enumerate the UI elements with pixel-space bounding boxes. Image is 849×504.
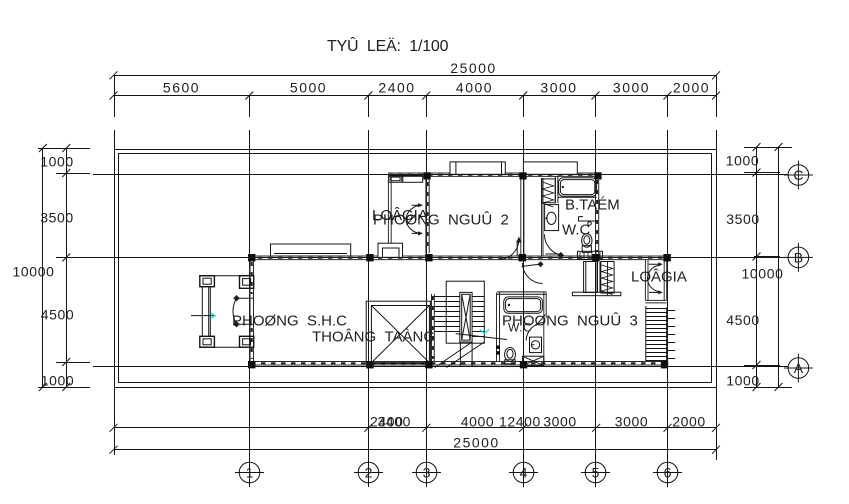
loggia2 stairs right ticks: [667, 311, 676, 359]
column blocks row A: [248, 361, 255, 368]
bath3 top enclosure line: [497, 292, 546, 294]
wardrobe shelf bar: [572, 292, 620, 296]
staircase treads right flight: [472, 297, 484, 337]
vertical wall SHC left (door gap): [250, 260, 254, 362]
svg-text:4: 4: [520, 465, 528, 481]
wc1 door arc: [544, 234, 563, 255]
svg-text:3: 3: [423, 465, 431, 481]
loggia1 small window boxes: [389, 176, 402, 183]
svg-text:3400: 3400: [378, 414, 412, 430]
wardrobe bed3 plain: [584, 262, 597, 293]
svg-text:4000: 4000: [461, 414, 495, 430]
void box thong tang: [366, 301, 430, 363]
grid bubble 2: [358, 462, 379, 483]
porch column bottom-left: [200, 336, 215, 347]
svg-text:W.C: W.C: [508, 321, 532, 335]
grid row B line: [93, 257, 788, 259]
porch column top-left: [200, 276, 215, 287]
grid line 2 vertical: [368, 96, 370, 463]
svg-text:4000: 4000: [456, 80, 493, 96]
staircase lower flight verticals: [460, 342, 472, 367]
window on wall C left: [450, 162, 505, 174]
grid bubble 4: [513, 462, 534, 483]
svg-text:3000: 3000: [543, 414, 577, 430]
bathtub bath3: [504, 297, 543, 313]
grid line 4 vertical: [523, 96, 525, 463]
svg-text:B.TAÉM: B.TAÉM: [565, 197, 620, 214]
washbasin bath3: [530, 337, 542, 353]
bottom segment dim ticks: [110, 424, 721, 432]
row bubble B: [788, 247, 809, 268]
door arc corridor at row B: [522, 263, 542, 284]
grid row C line: [93, 174, 788, 176]
entry arrow corridor: [522, 264, 540, 266]
row bubble A: [788, 358, 809, 379]
staircase outer box: [446, 281, 484, 343]
door SHC entry double swing: [237, 298, 254, 324]
grid line 6 vertical: [667, 96, 669, 463]
right edge extension line: [716, 76, 718, 461]
grid line 5 vertical: [595, 96, 597, 463]
svg-text:W.C: W.C: [562, 222, 590, 239]
porch centerline: [191, 315, 216, 317]
svg-text:LOÂGIA: LOÂGIA: [631, 269, 687, 286]
vertical wall stair left: [432, 294, 435, 362]
bottom total ticks: [110, 446, 721, 454]
toilet bath3: [505, 348, 516, 362]
bath1 washbasin: [545, 205, 559, 231]
porch column top-right: [240, 276, 254, 289]
svg-text:C: C: [793, 167, 803, 183]
planter box loggia1: [378, 243, 403, 257]
svg-text:1: 1: [246, 465, 254, 481]
svg-text:25000: 25000: [453, 435, 499, 451]
wall row C (top band): [388, 173, 599, 176]
svg-text:10000: 10000: [13, 264, 55, 280]
svg-text:3500: 3500: [40, 210, 74, 226]
svg-text:1000: 1000: [41, 373, 75, 389]
door arc loggia1: [406, 205, 422, 233]
window sill rect room SHC: [271, 244, 351, 256]
left chain ticks: [38, 149, 101, 388]
porch column bottom-right: [240, 336, 254, 347]
wall row B (middle): [248, 256, 668, 260]
svg-text:2400: 2400: [378, 80, 415, 96]
column blocks row C: [248, 172, 671, 368]
boundary fence outer rect: [115, 150, 717, 388]
svg-text:6: 6: [664, 465, 672, 481]
staircase direction line: [456, 334, 507, 340]
bottom segment dimension line: [114, 427, 717, 429]
svg-text:5000: 5000: [290, 80, 327, 96]
svg-text:1000: 1000: [726, 373, 760, 389]
bath3 left wall hatch: [496, 346, 499, 355]
extension line gaps: [113, 117, 718, 130]
top total dim ticks: [110, 71, 721, 79]
svg-text:3000: 3000: [613, 80, 650, 96]
left dim chain vertical lines: [43, 149, 67, 388]
bath1 closet hatched: [542, 179, 555, 203]
vertical wall loggia1 left: [388, 176, 391, 256]
wc1 bottom cabinet hatched: [578, 251, 603, 259]
loggia2 stairs treads: [646, 309, 667, 361]
svg-text:4500: 4500: [41, 307, 75, 323]
vertical wall bath1 right: [596, 176, 599, 256]
vertical wall corridor/closet: [542, 178, 544, 256]
svg-text:1000: 1000: [726, 153, 760, 169]
vertical wall bed2 right: [521, 176, 524, 256]
door arc bath3 wc: [526, 323, 544, 341]
window on wall C right: [523, 162, 577, 174]
svg-text:2000: 2000: [672, 414, 706, 430]
svg-text:TYÛ LEÄ: 1/100: TYÛ LEÄ: 1/100: [327, 36, 449, 55]
top segment dim ticks: [110, 92, 721, 100]
grid bubble 5: [585, 462, 606, 483]
right chain slashes: [753, 143, 783, 391]
staircase center rail with X: [460, 292, 472, 342]
top segment dimension line: [114, 95, 717, 97]
cyan arrow porch: [211, 313, 216, 319]
vertical wall bath3 left: [497, 293, 500, 362]
staircase treads upper flight: [435, 297, 460, 332]
toilet wc1: [582, 234, 592, 248]
svg-text:4500: 4500: [726, 312, 760, 328]
boundary fence inner rect: [119, 154, 712, 383]
wardrobe bed3 hatched: [601, 262, 614, 294]
svg-text:THOÂNG TAÀNG: THOÂNG TAÀNG: [312, 329, 435, 346]
bottom total dimension line 25000: [114, 449, 717, 451]
porch top line: [200, 275, 254, 277]
svg-text:2000: 2000: [673, 80, 710, 96]
bath1 tub enclosure: [555, 177, 596, 204]
svg-text:12400: 12400: [499, 414, 541, 430]
svg-text:5: 5: [592, 465, 600, 481]
porch bottom line: [200, 346, 254, 348]
left edge extension line: [114, 76, 116, 456]
svg-text:3500: 3500: [726, 211, 760, 227]
svg-text:5600: 5600: [163, 80, 200, 96]
grid line 3 vertical: [426, 96, 428, 463]
wall row A (bottom band): [251, 362, 668, 366]
door arc loggia2: [648, 264, 661, 292]
shaft x-box: [522, 356, 543, 366]
left chain slashes: [39, 144, 70, 391]
porch rails: [202, 287, 210, 337]
loggia2 bottom wall: [645, 300, 666, 303]
vertical wall loggia1/bed2: [426, 179, 429, 253]
right dim chain vertical lines: [757, 147, 779, 388]
vertical wall bath3 right: [544, 293, 546, 362]
grid bubble 3: [416, 462, 437, 483]
right chain ticks: [744, 148, 792, 388]
svg-text:2: 2: [365, 465, 373, 481]
svg-text:1000: 1000: [40, 154, 74, 170]
grid bubble 6: [657, 462, 678, 483]
staircase break diagonals: [435, 342, 485, 368]
column blocks row B: [248, 254, 255, 261]
grid line 1 vertical: [249, 96, 251, 463]
svg-text:A: A: [794, 360, 804, 376]
door arc bedroom2: [500, 240, 519, 260]
row bubble C: [788, 165, 809, 186]
svg-text:3000: 3000: [540, 80, 577, 96]
svg-text:25000: 25000: [450, 60, 496, 76]
svg-text:PHOØNG S.H.C: PHOØNG S.H.C: [232, 313, 347, 330]
svg-text:10000: 10000: [742, 266, 784, 282]
vertical wall loggia2 right: [664, 260, 667, 301]
wc1 partition wall: [579, 217, 598, 221]
cyan arrow staircase: [480, 329, 489, 333]
vertical wall bed3/loggia2: [645, 260, 648, 301]
grid bubble 1: [239, 462, 260, 483]
svg-text:3000: 3000: [615, 414, 649, 430]
svg-text:B: B: [794, 249, 803, 265]
top total dimension line 25000: [114, 75, 717, 77]
grid row A line: [93, 366, 788, 368]
bathtub bath1: [559, 178, 597, 197]
svg-text:PHOØNG NGUÛ 2: PHOØNG NGUÛ 2: [373, 212, 509, 229]
